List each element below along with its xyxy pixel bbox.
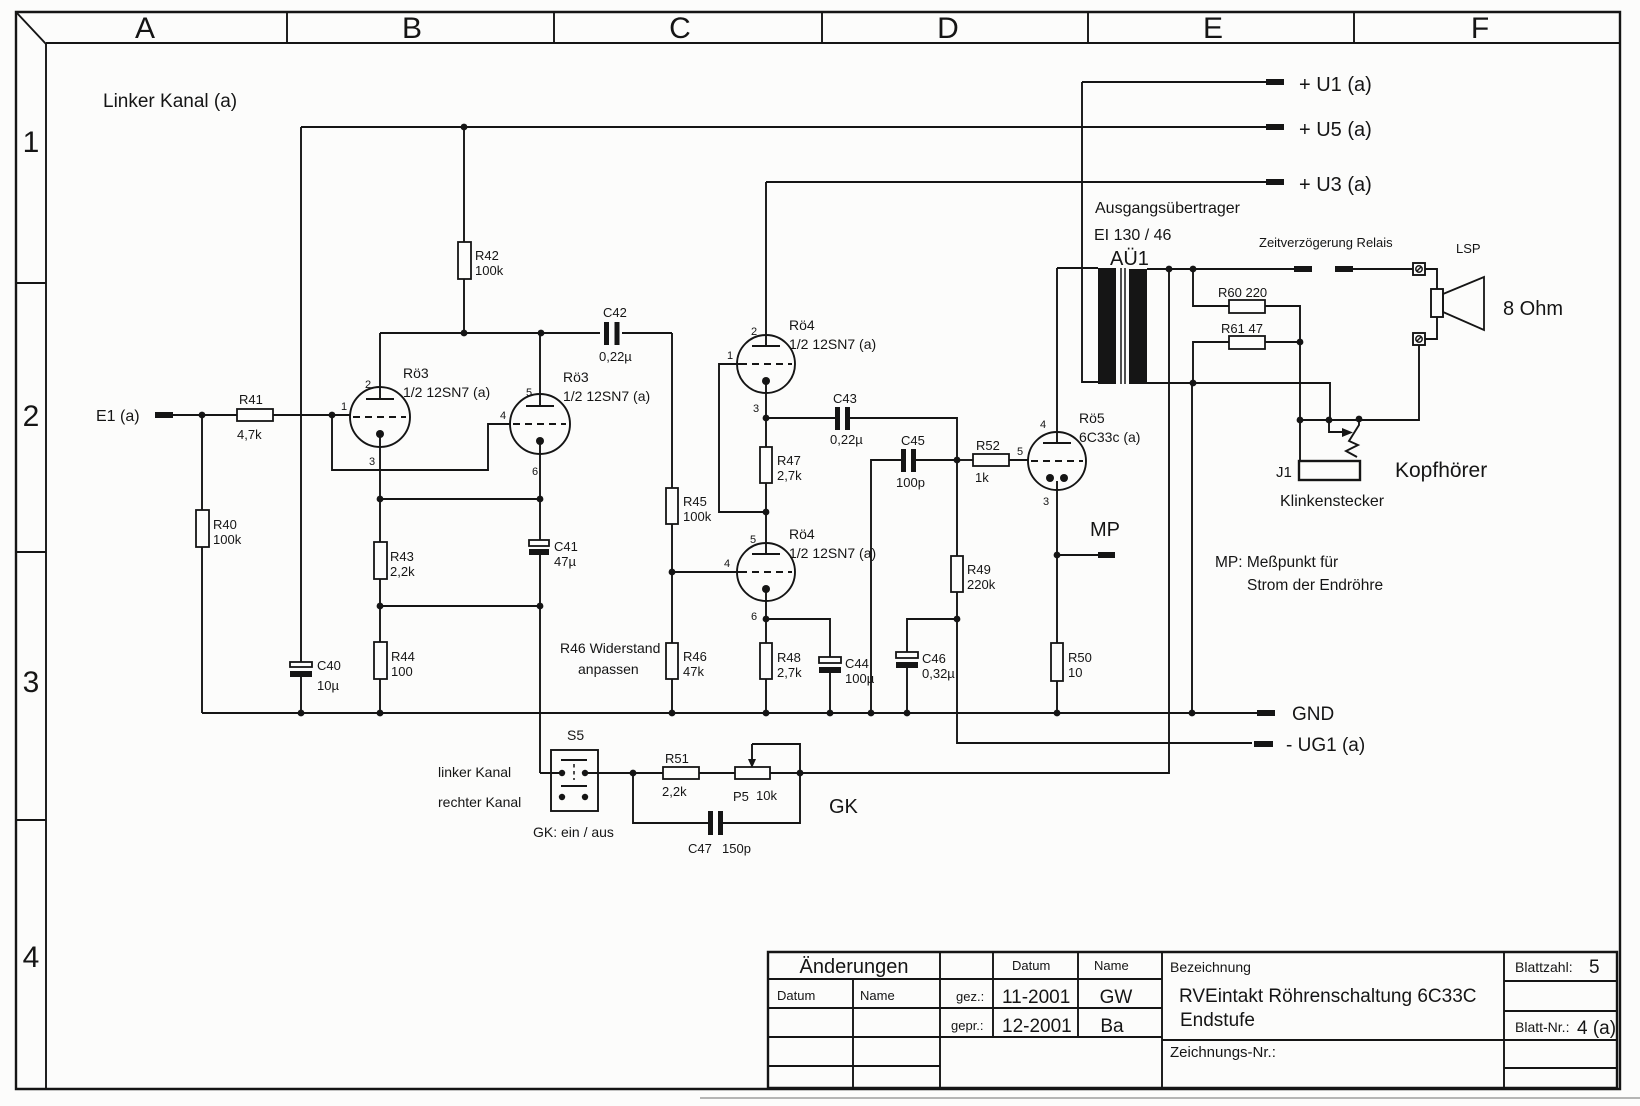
- capacitor C43: [766, 417, 835, 419]
- svg-text:5: 5: [526, 387, 532, 399]
- svg-text:R46: R46: [683, 649, 707, 664]
- svg-text:- UG1 (a): - UG1 (a): [1286, 735, 1365, 756]
- svg-text:Rö4: Rö4: [789, 317, 815, 333]
- power tube Roe5: [1028, 432, 1086, 490]
- junction R49 bottom / C46: [954, 616, 961, 623]
- row divider 3/4: [16, 819, 46, 821]
- svg-text:+ U1 (a): + U1 (a): [1299, 74, 1372, 96]
- svg-text:MP: MP: [1090, 519, 1120, 541]
- capacitor C44: [819, 657, 841, 663]
- triode Roe3 first half: [350, 387, 410, 447]
- wire grid Roe4b: [672, 571, 740, 573]
- title block outer box: [768, 952, 1617, 1088]
- title block horizontal under gez row: [768, 1007, 1162, 1009]
- junction grid node Roe3a: [329, 412, 336, 419]
- svg-text:GW: GW: [1100, 987, 1133, 1008]
- svg-text:Klinkenstecker: Klinkenstecker: [1280, 493, 1385, 510]
- svg-text:0,32µ: 0,32µ: [922, 666, 955, 681]
- svg-text:2,7k: 2,7k: [777, 468, 802, 483]
- svg-text:linker Kanal: linker Kanal: [438, 764, 511, 780]
- jack switch arrow contact: [1329, 420, 1343, 432]
- svg-text:B: B: [402, 12, 422, 45]
- junction MP node: [1054, 552, 1061, 559]
- triode Roe4 second half: [737, 543, 795, 601]
- resistor R42: [463, 127, 465, 242]
- title block horizontal under headers: [768, 978, 1162, 980]
- junction cathode Roe4b: [763, 616, 770, 623]
- svg-text:R52: R52: [976, 438, 1000, 453]
- svg-text:10µ: 10µ: [317, 678, 339, 693]
- svg-text:Rö5: Rö5: [1079, 410, 1105, 426]
- junction GND R44: [377, 710, 384, 717]
- resistor R51: [663, 767, 699, 779]
- title block vertical Bezeichnung divider: [1161, 952, 1163, 1088]
- speaker LSP 8 Ohm: [1431, 289, 1443, 317]
- wire secondary bottom to GND: [1191, 383, 1193, 713]
- jack switch spring contact: [1346, 419, 1359, 457]
- svg-text:Rö3: Rö3: [563, 369, 589, 385]
- svg-text:1/2 12SN7 (a): 1/2 12SN7 (a): [789, 545, 876, 561]
- resistor R43: [379, 499, 381, 542]
- svg-text:1: 1: [23, 126, 40, 159]
- terminal -UG1 (a): [1254, 741, 1273, 747]
- junction GND C46: [904, 710, 911, 717]
- wire cathode bus Roe3: [380, 498, 540, 500]
- junction GND R48: [763, 710, 770, 717]
- title block horizontal under Blattzahl: [1504, 980, 1617, 982]
- title block horizontal under Blatt-Nr: [1504, 1067, 1617, 1069]
- junction P5 wiper out: [797, 770, 804, 777]
- junction GND R46: [669, 710, 676, 717]
- wire cathode Roe3a: [379, 434, 381, 499]
- terminal GND: [1257, 710, 1275, 716]
- svg-text:2: 2: [751, 326, 757, 338]
- svg-text:100: 100: [391, 664, 413, 679]
- title block vertical date/name divider: [1077, 952, 1079, 1037]
- svg-text:F: F: [1471, 12, 1489, 45]
- svg-text:2,7k: 2,7k: [777, 665, 802, 680]
- wire LSP terminal2 down to jack line: [1300, 345, 1419, 420]
- svg-text:Kopfhörer: Kopfhörer: [1395, 459, 1487, 482]
- svg-text:5: 5: [750, 534, 756, 546]
- svg-text:1/2 12SN7 (a): 1/2 12SN7 (a): [789, 336, 876, 352]
- relay contact bars: [1294, 266, 1312, 272]
- svg-text:3: 3: [369, 456, 375, 468]
- wire C41 junction down to S5: [539, 555, 541, 606]
- junction cathode bus left: [377, 496, 384, 503]
- title block vertical Datum/Name divider: [852, 979, 854, 1088]
- svg-text:R51: R51: [665, 751, 689, 766]
- title block horizontal under gepr row: [768, 1036, 1162, 1038]
- junction anode bus Roe3b: [538, 330, 545, 337]
- page bottom edge: [700, 1097, 1640, 1099]
- svg-text:100k: 100k: [683, 509, 712, 524]
- row divider 1/2: [16, 282, 46, 284]
- svg-text:S5: S5: [567, 727, 584, 743]
- resistor R50: [1056, 555, 1058, 643]
- resistor R40: [201, 415, 203, 510]
- svg-text:R46 Widerstand: R46 Widerstand: [560, 640, 660, 656]
- title block vertical gez/date divider: [992, 952, 994, 1037]
- junction R60/R61: [1297, 339, 1304, 346]
- wire +U5 rail: [301, 126, 1266, 128]
- column divider A/B: [286, 12, 288, 43]
- svg-text:C47: C47: [688, 841, 712, 856]
- svg-text:R49: R49: [967, 562, 991, 577]
- junction GND transformer secondary: [1189, 710, 1196, 717]
- wire -UG1 rail: [957, 619, 1252, 743]
- junction secondary bottom: [1190, 380, 1197, 387]
- wire feedback drop to GK line: [800, 269, 1169, 773]
- wire +U1 drop to transformer primary bottom: [1082, 82, 1098, 382]
- svg-text:P5: P5: [733, 789, 749, 804]
- svg-text:GK: GK: [829, 796, 859, 818]
- wire C42 to R45: [671, 333, 673, 488]
- resistor R48: [765, 619, 767, 643]
- svg-text:4: 4: [500, 410, 506, 422]
- terminal +U5 (a): [1266, 124, 1284, 130]
- wire cathode Roe5: [1056, 481, 1058, 555]
- wire cathode Roe4b: [765, 589, 767, 619]
- svg-text:6: 6: [751, 611, 757, 623]
- svg-text:GK: ein / aus: GK: ein / aus: [533, 824, 614, 840]
- junction secondary top feedback: [1166, 266, 1173, 273]
- wire anode Roe3a: [379, 333, 381, 399]
- wire attenuator to jack: [1299, 342, 1301, 461]
- wire +U3 rail: [766, 181, 1266, 183]
- wire R43/C41 junction bus: [380, 605, 540, 607]
- title block horizontal above Blatt-Nr: [1504, 1010, 1617, 1012]
- triode Roe3 second half: [510, 394, 570, 454]
- svg-text:R42: R42: [475, 248, 499, 263]
- svg-text:6C33c (a): 6C33c (a): [1079, 429, 1140, 445]
- junction SRPP mid node: [763, 509, 770, 516]
- junction GND R50: [1054, 710, 1061, 717]
- svg-text:1: 1: [727, 350, 733, 362]
- resistor R46: [666, 643, 678, 679]
- svg-text:10: 10: [1068, 665, 1082, 680]
- svg-text:Strom der Endröhre: Strom der Endröhre: [1247, 577, 1383, 594]
- wire GND bus: [202, 712, 1257, 714]
- svg-text:Ba: Ba: [1100, 1016, 1124, 1037]
- svg-text:Zeitverzögerung Relais: Zeitverzögerung Relais: [1259, 235, 1393, 250]
- resistor R61: [1193, 342, 1229, 383]
- wire grid Roe4a SRPP link: [719, 364, 766, 512]
- frame inner header line: [46, 42, 1620, 44]
- column divider B/C: [553, 12, 555, 43]
- junction cathode Roe4a / C43: [763, 415, 770, 422]
- svg-text:R50: R50: [1068, 650, 1092, 665]
- wire anode bus Roe3: [380, 332, 600, 334]
- junction cathode bus right: [537, 496, 544, 503]
- wire cathode Roe4a: [765, 381, 767, 418]
- svg-text:1: 1: [341, 401, 347, 413]
- junction grid node Roe5: [954, 457, 961, 464]
- svg-text:E1 (a): E1 (a): [96, 408, 140, 425]
- svg-text:D: D: [937, 12, 959, 45]
- wire anode Roe5 to transformer: [1056, 268, 1058, 443]
- transformer AUe1 primary winding: [1057, 267, 1098, 269]
- svg-text:C44: C44: [845, 656, 869, 671]
- svg-text:AÜ1: AÜ1: [1110, 248, 1149, 270]
- svg-text:2: 2: [23, 400, 40, 433]
- wire S5 to R51: [585, 772, 663, 774]
- svg-text:E: E: [1203, 12, 1223, 45]
- svg-text:R45: R45: [683, 494, 707, 509]
- svg-text:A: A: [135, 12, 155, 45]
- svg-text:anpassen: anpassen: [578, 661, 639, 677]
- svg-text:gepr.:: gepr.:: [951, 1018, 984, 1033]
- svg-text:GND: GND: [1292, 704, 1334, 725]
- LSP terminal 2: [1413, 333, 1425, 345]
- title block vertical left/gez divider: [939, 952, 941, 1088]
- svg-text:4 (a): 4 (a): [1577, 1018, 1616, 1039]
- svg-text:C41: C41: [554, 539, 578, 554]
- potentiometer P5: [735, 767, 770, 779]
- svg-text:220k: 220k: [967, 577, 996, 592]
- svg-text:11-2001: 11-2001: [1002, 987, 1070, 1008]
- svg-text:1/2 12SN7 (a): 1/2 12SN7 (a): [403, 384, 490, 400]
- wire cathode Roe4b to C44: [766, 619, 830, 658]
- wire +U5 rail drop to C40: [300, 127, 302, 663]
- svg-text:100p: 100p: [896, 475, 925, 490]
- svg-text:4: 4: [23, 941, 40, 974]
- svg-text:Name: Name: [1094, 958, 1129, 973]
- triode Roe4 first half: [737, 335, 795, 393]
- svg-text:2: 2: [365, 379, 371, 391]
- svg-text:J1: J1: [1276, 464, 1292, 481]
- resistor R41: [237, 409, 273, 421]
- capacitor C41: [539, 499, 541, 541]
- svg-text:R43: R43: [390, 549, 414, 564]
- junction jack tip: [1297, 417, 1304, 424]
- junction jack switch b: [1356, 416, 1363, 423]
- svg-text:Rö3: Rö3: [403, 365, 429, 381]
- resistor R60: [1193, 269, 1229, 306]
- wire cathode Roe3b: [539, 441, 541, 499]
- junction input/R40: [199, 412, 206, 419]
- wire E1 input to grid of Roe3a: [173, 414, 237, 416]
- svg-text:EI 130 / 46: EI 130 / 46: [1094, 227, 1171, 244]
- svg-text:Ausgangsübertrager: Ausgangsübertrager: [1095, 200, 1241, 217]
- svg-text:4: 4: [1040, 419, 1046, 431]
- svg-text:Name: Name: [860, 988, 895, 1003]
- junction GND C44: [827, 710, 834, 717]
- svg-text:C45: C45: [901, 433, 925, 448]
- capacitor C42: [604, 322, 609, 345]
- svg-text:Endstufe: Endstufe: [1180, 1010, 1255, 1031]
- svg-text:gez.:: gez.:: [956, 989, 984, 1004]
- svg-text:R44: R44: [391, 649, 415, 664]
- frame corner diagonal: [16, 12, 46, 44]
- svg-text:5: 5: [1017, 446, 1023, 458]
- svg-text:2,2k: 2,2k: [662, 784, 687, 799]
- svg-text:R40: R40: [213, 517, 237, 532]
- svg-text:1k: 1k: [975, 470, 989, 485]
- wire relay to LSP terminal: [1353, 268, 1413, 270]
- frame inner left line: [45, 43, 47, 1089]
- title block vertical Blattzahl divider: [1503, 952, 1505, 1088]
- svg-text:100k: 100k: [213, 532, 242, 547]
- resistor R47: [765, 418, 767, 447]
- capacitor C45: [871, 460, 901, 713]
- svg-text:+ U5 (a): + U5 (a): [1299, 119, 1372, 141]
- resistor R45: [666, 488, 678, 524]
- capacitor C40: [290, 662, 312, 667]
- junction GND C40: [298, 710, 305, 717]
- junction jack switch a: [1326, 417, 1333, 424]
- svg-text:rechter Kanal: rechter Kanal: [438, 794, 521, 810]
- wire anode Roe3b: [539, 333, 541, 406]
- junction S5/C47 branch: [630, 770, 637, 777]
- svg-text:Bezeichnung: Bezeichnung: [1170, 959, 1251, 975]
- svg-text:47k: 47k: [683, 664, 704, 679]
- svg-text:0,22µ: 0,22µ: [599, 349, 632, 364]
- svg-text:47µ: 47µ: [554, 554, 576, 569]
- column divider C/D: [821, 12, 823, 43]
- LSP terminal 1: [1413, 263, 1425, 275]
- terminal MP measuring point: [1057, 554, 1098, 556]
- svg-text:C40: C40: [317, 658, 341, 673]
- wire secondary top: [1147, 268, 1294, 270]
- svg-text:Datum: Datum: [1012, 958, 1050, 973]
- svg-text:C46: C46: [922, 651, 946, 666]
- svg-text:3: 3: [23, 666, 40, 699]
- svg-text:Blatt-Nr.:: Blatt-Nr.:: [1515, 1019, 1569, 1035]
- junction R42 top on +U5 rail: [461, 124, 468, 131]
- node E1 (a) input terminal: [155, 412, 173, 418]
- svg-text:Zeichnungs-Nr.:: Zeichnungs-Nr.:: [1170, 1044, 1276, 1061]
- svg-text:R41: R41: [239, 392, 263, 407]
- svg-text:MP: Meßpunkt für: MP: Meßpunkt für: [1215, 554, 1338, 571]
- wire +U1 rail: [1082, 81, 1266, 83]
- svg-text:6: 6: [532, 466, 538, 478]
- junction anode bus R42: [461, 330, 468, 337]
- resistor R44: [379, 606, 381, 642]
- row divider 2/3: [16, 551, 46, 553]
- svg-text:C43: C43: [833, 391, 857, 406]
- svg-text:R48: R48: [777, 650, 801, 665]
- svg-text:1/2 12SN7 (a): 1/2 12SN7 (a): [563, 388, 650, 404]
- resistor R49: [956, 460, 958, 556]
- switch S5: [540, 772, 562, 774]
- svg-text:0,22µ: 0,22µ: [830, 432, 863, 447]
- svg-text:R47: R47: [777, 453, 801, 468]
- svg-text:Änderungen: Änderungen: [800, 956, 909, 978]
- svg-text:R61 47: R61 47: [1221, 321, 1263, 336]
- svg-text:3: 3: [753, 403, 759, 415]
- wire anode Roe4a to +U3: [765, 182, 767, 346]
- svg-text:2,2k: 2,2k: [390, 564, 415, 579]
- capacitor C46: [907, 619, 957, 653]
- capacitor C47: [633, 773, 708, 823]
- wire LSP terminal2 to speaker: [1425, 317, 1437, 339]
- svg-text:5: 5: [1589, 957, 1600, 978]
- column divider E/F: [1353, 12, 1355, 43]
- title block horizontal left extra row: [768, 1065, 940, 1067]
- junction GND C45: [868, 710, 875, 717]
- svg-text:12-2001: 12-2001: [1002, 1016, 1072, 1037]
- svg-text:4: 4: [724, 558, 730, 570]
- svg-text:3: 3: [1043, 496, 1049, 508]
- wire primary bottom: [1082, 381, 1098, 383]
- terminal +U1 (a): [1266, 79, 1284, 85]
- svg-text:Rö4: Rö4: [789, 526, 815, 542]
- junction secondary top R60: [1190, 266, 1197, 273]
- column divider D/E: [1087, 12, 1089, 43]
- svg-text:4,7k: 4,7k: [237, 427, 262, 442]
- terminal +U3 (a): [1266, 179, 1284, 185]
- junction R45/R46 grid tap: [669, 569, 676, 576]
- wire LSP terminal1 to speaker: [1425, 269, 1437, 289]
- transformer AUe1 core: [1120, 268, 1122, 384]
- svg-text:LSP: LSP: [1456, 241, 1481, 256]
- svg-text:10k: 10k: [756, 788, 777, 803]
- svg-text:C: C: [669, 12, 691, 45]
- svg-text:100k: 100k: [475, 263, 504, 278]
- svg-text:RVEintakt Röhrenschaltung 6C3: RVEintakt Röhrenschaltung 6C33C: [1179, 986, 1477, 1007]
- wire secondary bottom: [1147, 383, 1330, 420]
- svg-text:R60 220: R60 220: [1218, 285, 1267, 300]
- svg-text:Linker Kanal (a): Linker Kanal (a): [103, 91, 237, 112]
- svg-text:Blattzahl:: Blattzahl:: [1515, 959, 1573, 975]
- transformer AUe1 secondary winding: [1129, 269, 1147, 384]
- headphone jack J1: [1299, 461, 1360, 480]
- svg-text:150p: 150p: [722, 841, 751, 856]
- svg-text:C42: C42: [603, 305, 627, 320]
- svg-text:8 Ohm: 8 Ohm: [1503, 298, 1563, 320]
- title block horizontal under Endstufe: [1162, 1039, 1617, 1041]
- wire anode Roe4b: [765, 512, 767, 554]
- svg-text:+ U3 (a): + U3 (a): [1299, 174, 1372, 196]
- wire C43 to grid node Roe5: [850, 418, 957, 460]
- wire grid link Roe3a to Roe3b: [332, 415, 511, 470]
- resistor R52: [957, 459, 973, 461]
- svg-text:Datum: Datum: [777, 988, 815, 1003]
